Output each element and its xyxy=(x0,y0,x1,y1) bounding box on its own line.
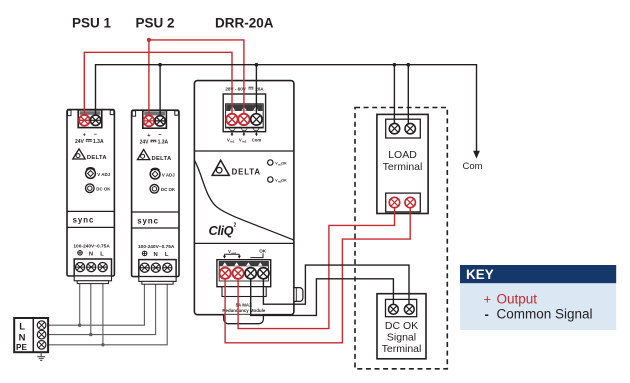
DRR DIN foot bottom xyxy=(224,315,264,324)
DRR-20A module body xyxy=(194,81,294,315)
wire red DRR Vout1 to LOAD terminal right xyxy=(225,203,410,343)
svg-text:OK: OK xyxy=(281,179,287,183)
KEY legend header xyxy=(460,265,616,283)
DRR bottom section divider xyxy=(194,242,294,244)
wire black LOAD terminal branch 2 xyxy=(407,63,411,129)
DRR OK screw 1 (black) xyxy=(245,268,256,279)
svg-text:in2: in2 xyxy=(242,139,247,143)
PSU1 output screw + (red) xyxy=(79,115,90,126)
wire red PSU1+ to DRR Vin1 xyxy=(84,52,232,120)
svg-text:Signal: Signal xyxy=(387,332,416,344)
DRR OK screw 2 (black) xyxy=(258,268,269,279)
DRR Vout screw 2 (red) xyxy=(233,268,244,279)
wire black DRR Com branch xyxy=(255,63,259,120)
svg-text:KEY: KEY xyxy=(466,267,494,282)
PSU2 output screw - (black) xyxy=(155,116,165,126)
svg-text:Common Signal: Common Signal xyxy=(497,307,593,322)
svg-text:OK: OK xyxy=(259,249,267,254)
svg-text:DRR-20A: DRR-20A xyxy=(215,16,274,31)
svg-text:-: - xyxy=(485,307,489,322)
label PSU 1 xyxy=(72,16,112,31)
wire black LOAD terminal branch 1 xyxy=(393,63,397,129)
PSU1 output screw - (black) xyxy=(90,115,100,125)
svg-text:+: + xyxy=(484,291,492,306)
svg-text:CliQ: CliQ xyxy=(209,223,234,238)
svg-text:PSU 1: PSU 1 xyxy=(72,16,112,31)
AC input wires PSU1 (ground, N, L verticals) xyxy=(80,284,103,345)
svg-text:2: 2 xyxy=(234,223,237,229)
svg-text:Redundancy Module: Redundancy Module xyxy=(222,308,265,313)
svg-text:LOAD: LOAD xyxy=(388,149,417,161)
DRR 5A MAX text xyxy=(222,302,265,312)
svg-text:Com: Com xyxy=(463,161,483,172)
LOAD terminal bottom screw 2 (red) xyxy=(405,197,415,207)
LOAD terminal bottom screw 1 (red) xyxy=(389,197,399,207)
wire black DRR OK1 to DC OK left xyxy=(251,273,394,315)
DRR OK bracket label xyxy=(250,249,266,258)
DC OK terminal screw 1 (black) xyxy=(389,304,399,314)
wire black PSU2- branch xyxy=(158,63,162,121)
junction dots AC wires at PSU1 xyxy=(78,324,105,347)
DRR Vin1 screw (red) xyxy=(226,114,237,125)
svg-text:PE: PE xyxy=(16,343,27,352)
svg-text:PSU 2: PSU 2 xyxy=(136,16,175,31)
DRR Com screw (black) xyxy=(251,114,262,125)
L N PE input block xyxy=(14,318,48,352)
DRR output terminal block xyxy=(217,260,271,297)
DRR top section divider xyxy=(194,150,294,152)
Com arrow label xyxy=(463,161,483,172)
DRR DIN tab right xyxy=(294,288,303,302)
L N PE screws xyxy=(37,321,46,349)
DRR CliQ logo xyxy=(209,223,237,238)
PSU 2 module xyxy=(132,110,179,284)
KEY legend body xyxy=(460,283,616,330)
DRR input terminal block xyxy=(223,94,265,132)
svg-text:Terminal: Terminal xyxy=(382,343,422,355)
LOAD terminal top screw 2 (black) xyxy=(405,123,415,133)
svg-text:DC OK: DC OK xyxy=(385,320,418,332)
svg-text:Com: Com xyxy=(252,137,262,142)
LOAD terminal box xyxy=(377,114,428,213)
DRR Vout screw 1 (red) xyxy=(220,268,231,279)
svg-text:Output: Output xyxy=(497,291,538,306)
DRR swoosh curve xyxy=(194,160,294,240)
wire black common bus to Com arrow xyxy=(96,65,480,159)
svg-text:out: out xyxy=(231,251,236,255)
DC OK terminal screw 2 (black) xyxy=(404,304,414,314)
LOAD terminal top screw 1 (black) xyxy=(389,123,399,133)
svg-text:N: N xyxy=(19,333,26,344)
AC bus wires from L N PE block to PSU2 xyxy=(48,284,167,345)
DRR input rating text xyxy=(225,87,264,92)
DRR Vin1 Vin2 Com labels with arrows xyxy=(227,132,261,143)
ground symbol under L N PE block xyxy=(37,352,45,360)
label DRR-20A xyxy=(215,16,274,31)
dashed enclosure box (terminals group) xyxy=(355,108,447,369)
svg-text:DELTA: DELTA xyxy=(232,168,261,177)
DC OK signal terminal box xyxy=(377,294,426,359)
svg-text:OK: OK xyxy=(281,162,287,166)
DRR Delta logo xyxy=(212,160,261,176)
svg-text:L: L xyxy=(19,321,25,332)
wire black DRR OK2 to DC OK right xyxy=(263,265,409,309)
PSU 1 module xyxy=(67,110,114,284)
PSU2 output screw + (red) xyxy=(144,116,155,127)
svg-text:in1: in1 xyxy=(230,139,235,143)
wire red PSU2+ to DRR Vin2 xyxy=(147,38,244,121)
DRR Vin2 screw (red) xyxy=(238,114,249,125)
svg-text:Terminal: Terminal xyxy=(383,161,423,173)
wire red DRR Vout2 to LOAD terminal left xyxy=(238,203,394,329)
label PSU 2 xyxy=(136,16,175,31)
DRR Vout bracket label xyxy=(223,249,241,258)
DRR Vin OK indicators xyxy=(268,160,288,184)
